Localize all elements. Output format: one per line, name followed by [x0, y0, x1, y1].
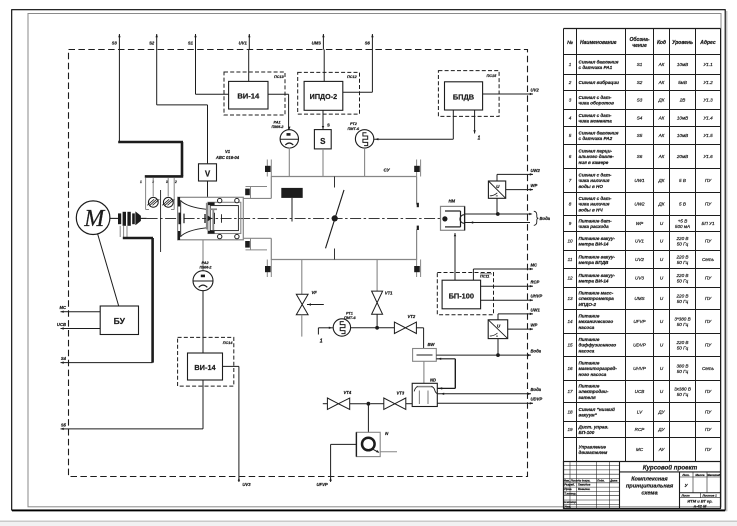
svg-text:ПУ: ПУ	[705, 276, 712, 281]
svg-text:спектрометра: спектрометра	[579, 296, 615, 301]
svg-text:ПС13: ПС13	[274, 75, 285, 79]
svg-text:UCB: UCB	[635, 389, 645, 394]
svg-text:ПУ: ПУ	[705, 410, 712, 415]
svg-text:У1.6: У1.6	[703, 154, 713, 159]
svg-text:380 В: 380 В	[676, 363, 688, 368]
svg-text:UW1: UW1	[634, 178, 645, 183]
svg-text:2: 2	[568, 80, 572, 85]
svg-text:ND: ND	[430, 377, 436, 382]
svg-text:UV2: UV2	[635, 257, 644, 262]
svg-text:ИПДО-2: ИПДО-2	[310, 92, 337, 101]
svg-text:S6: S6	[637, 154, 643, 159]
svg-text:БП У1: БП У1	[701, 221, 715, 226]
svg-text:LV: LV	[637, 410, 643, 415]
svg-text:ДУ: ДУ	[657, 427, 665, 432]
svg-text:UFVP: UFVP	[317, 482, 328, 487]
svg-text:500 мА: 500 мА	[675, 224, 690, 229]
svg-text:S1: S1	[188, 41, 194, 46]
svg-text:50 Гц: 50 Гц	[677, 260, 689, 265]
svg-text:VT3: VT3	[397, 391, 405, 396]
svg-text:UHVP: UHVP	[531, 294, 543, 299]
svg-text:Сигнал вибрации: Сигнал вибрации	[579, 79, 620, 85]
svg-text:АК: АК	[658, 62, 665, 67]
svg-text:UFVP: UFVP	[633, 319, 646, 324]
svg-text:воды в НО: воды в НО	[579, 184, 604, 189]
svg-text:UV1: UV1	[239, 41, 248, 46]
svg-text:чика оборотов: чика оборотов	[579, 100, 615, 106]
svg-text:S2: S2	[637, 80, 643, 85]
svg-text:МС: МС	[636, 447, 644, 452]
svg-text:чика наличия: чика наличия	[579, 202, 610, 207]
svg-text:ПУ: ПУ	[705, 427, 712, 432]
svg-text:ПМТ-6: ПМТ-6	[348, 127, 360, 131]
svg-text:№ докум.: № докум.	[578, 478, 591, 482]
svg-text:Масштаб: Масштаб	[707, 473, 720, 477]
svg-text:вакуум”: вакуум”	[579, 413, 598, 418]
svg-text:ПС14: ПС14	[223, 341, 234, 345]
svg-text:СУ: СУ	[384, 167, 391, 172]
svg-text:Комплексная: Комплексная	[631, 476, 668, 482]
svg-text:UV2: UV2	[531, 87, 540, 92]
svg-text:Питание: Питание	[579, 361, 600, 366]
svg-text:н-42 М: н-42 М	[694, 503, 707, 508]
svg-text:13: 13	[567, 296, 573, 301]
svg-text:АК: АК	[658, 154, 665, 159]
svg-text:чика момента: чика момента	[579, 119, 613, 124]
svg-text:VF: VF	[312, 290, 318, 295]
svg-text:V: V	[205, 169, 211, 178]
svg-text:ПУ: ПУ	[705, 389, 712, 394]
svg-text:насоса: насоса	[579, 325, 595, 330]
svg-text:Питание дат-: Питание дат-	[579, 218, 613, 223]
svg-text:50 Гц: 50 Гц	[677, 299, 689, 304]
svg-text:Вода: Вода	[540, 216, 551, 221]
svg-text:3: 3	[569, 98, 572, 103]
svg-text:ПС12: ПС12	[347, 75, 358, 79]
svg-text:UMS: UMS	[634, 296, 645, 301]
svg-text:S6: S6	[365, 41, 371, 46]
svg-text:RCP: RCP	[635, 427, 646, 432]
svg-text:2В: 2В	[679, 98, 686, 103]
svg-text:ПУ: ПУ	[705, 239, 712, 244]
svg-text:Управление: Управление	[579, 444, 607, 449]
svg-text:20мВ: 20мВ	[676, 154, 688, 159]
svg-text:ПУ: ПУ	[705, 202, 712, 207]
svg-text:Сигнал давления: Сигнал давления	[579, 130, 619, 135]
svg-text:магниторазряд-: магниторазряд-	[579, 366, 618, 371]
svg-text:17: 17	[567, 389, 573, 394]
svg-text:5 В: 5 В	[679, 202, 686, 207]
svg-text:11: 11	[568, 257, 573, 262]
svg-text:50 Гц: 50 Гц	[677, 242, 689, 247]
svg-text:S: S	[320, 137, 326, 146]
svg-text:50 Гц: 50 Гц	[677, 346, 689, 351]
svg-text:Сигнал с дат-: Сигнал с дат-	[579, 173, 612, 178]
svg-text:220 В: 220 В	[675, 236, 688, 241]
svg-text:Адрес: Адрес	[699, 40, 716, 46]
svg-text:ДУ: ДУ	[657, 410, 665, 415]
svg-text:электродви-: электродви-	[579, 389, 609, 394]
svg-text:Сеть: Сеть	[702, 257, 715, 262]
svg-text:ДК: ДК	[658, 98, 665, 103]
svg-text:Вода: Вода	[531, 348, 542, 353]
svg-text:16: 16	[567, 366, 573, 371]
svg-text:ДК: ДК	[658, 178, 665, 183]
svg-text:ДК: ДК	[658, 202, 665, 207]
svg-text:У1.3: У1.3	[703, 98, 713, 103]
svg-text:S3: S3	[637, 98, 643, 103]
svg-text:двигателем: двигателем	[579, 450, 608, 455]
svg-text:АВС 016-04: АВС 016-04	[215, 155, 240, 160]
svg-text:1: 1	[320, 339, 323, 345]
svg-text:У1.4: У1.4	[703, 116, 713, 121]
svg-text:ПУ: ПУ	[705, 343, 712, 348]
svg-text:Питание вакуу-: Питание вакуу-	[579, 273, 616, 278]
svg-text:5 В: 5 В	[679, 178, 686, 183]
svg-text:220 В: 220 В	[675, 340, 688, 345]
svg-text:АУ: АУ	[658, 447, 666, 452]
svg-text:Питание масс-: Питание масс-	[579, 291, 614, 296]
svg-text:Ковален.: Ковален.	[578, 487, 591, 491]
svg-text:метра ВИ-14: метра ВИ-14	[579, 279, 609, 284]
svg-text:БПДВ: БПДВ	[453, 92, 474, 101]
svg-text:ПУ: ПУ	[705, 296, 712, 301]
svg-text:Вода: Вода	[531, 387, 542, 392]
svg-text:3х380 В: 3х380 В	[674, 386, 691, 391]
svg-text:S4: S4	[61, 356, 67, 361]
svg-text:Сигнал с дат-: Сигнал с дат-	[579, 113, 612, 118]
svg-text:ного насоса: ного насоса	[579, 372, 607, 377]
svg-text:Подп.: Подп.	[597, 478, 605, 482]
svg-text:чение: чение	[632, 43, 647, 49]
svg-text:1: 1	[478, 136, 481, 142]
svg-text:Утв.: Утв.	[564, 504, 571, 508]
svg-text:UW2: UW2	[634, 202, 645, 207]
svg-text:ального давле-: ального давле-	[579, 154, 615, 159]
svg-text:ПУ: ПУ	[705, 319, 712, 324]
svg-text:ПУ: ПУ	[705, 178, 712, 183]
svg-text:V1: V1	[225, 149, 231, 154]
svg-text:S4: S4	[637, 116, 643, 121]
svg-text:метра БПДВ: метра БПДВ	[579, 260, 610, 265]
svg-text:Уровень: Уровень	[672, 40, 693, 46]
svg-text:UW1: UW1	[531, 307, 541, 312]
svg-text:RCP: RCP	[531, 280, 540, 285]
svg-text:МС: МС	[531, 262, 538, 267]
svg-text:S2: S2	[149, 41, 155, 46]
svg-text:50 Гц: 50 Гц	[677, 392, 689, 397]
svg-text:S3: S3	[112, 41, 118, 46]
svg-text:Лист: Лист	[681, 494, 691, 498]
svg-text:диффузионного: диффузионного	[579, 342, 617, 348]
svg-text:WP: WP	[636, 221, 644, 226]
svg-text:Сигнал “низкий: Сигнал “низкий	[579, 406, 615, 412]
svg-text:UHVP: UHVP	[633, 366, 647, 371]
svg-text:Сигнал с дат-: Сигнал с дат-	[579, 196, 612, 201]
svg-text:10мВ: 10мВ	[677, 62, 688, 67]
svg-text:+5 В: +5 В	[678, 218, 688, 223]
svg-text:50 Гц: 50 Гц	[677, 322, 689, 327]
svg-text:UCB: UCB	[57, 322, 66, 327]
svg-text:АК: АК	[658, 133, 665, 138]
svg-text:ПУ: ПУ	[705, 447, 712, 452]
svg-text:S5: S5	[61, 422, 67, 427]
svg-text:1: 1	[140, 180, 142, 184]
svg-text:Питание: Питание	[579, 337, 600, 342]
svg-text:50 Гц: 50 Гц	[677, 279, 689, 284]
svg-text:ВИ-14: ВИ-14	[194, 363, 216, 372]
svg-text:10: 10	[567, 239, 573, 244]
svg-text:S: S	[327, 123, 330, 128]
svg-text:гателя: гателя	[579, 395, 596, 400]
svg-text:принципиальная: принципиальная	[626, 483, 674, 489]
svg-text:схема: схема	[641, 490, 657, 496]
svg-text:Сигнал с дат-: Сигнал с дат-	[579, 95, 612, 100]
svg-text:S5: S5	[637, 133, 643, 138]
svg-text:Изм.: Изм.	[564, 478, 570, 482]
svg-text:BW: BW	[428, 342, 436, 347]
svg-text:Лит.: Лит.	[681, 473, 690, 477]
svg-text:VT4: VT4	[344, 390, 352, 395]
svg-text:ПМИ-2: ПМИ-2	[272, 125, 285, 129]
svg-text:220 В: 220 В	[675, 254, 688, 259]
svg-text:Сеть: Сеть	[702, 366, 715, 371]
svg-text:Листов 1: Листов 1	[702, 494, 718, 498]
svg-text:АК: АК	[658, 80, 665, 85]
svg-text:Питание вакуу-: Питание вакуу-	[579, 254, 616, 259]
svg-text:5: 5	[569, 133, 572, 138]
svg-text:РТ2: РТ2	[350, 122, 358, 126]
svg-text:UDVP: UDVP	[531, 397, 543, 402]
svg-text:ИПДО-2: ИПДО-2	[579, 302, 597, 307]
svg-text:Сигнал давления: Сигнал давления	[579, 59, 619, 64]
svg-text:БП-100: БП-100	[579, 430, 595, 435]
svg-text:Курсовой проект: Курсовой проект	[643, 464, 698, 471]
svg-text:220 В: 220 В	[675, 273, 688, 278]
svg-text:насоса: насоса	[579, 348, 595, 353]
svg-text:БУ: БУ	[114, 316, 126, 326]
svg-text:Наименование: Наименование	[580, 40, 617, 46]
svg-text:Масса: Масса	[695, 473, 705, 477]
svg-text:МС: МС	[59, 305, 66, 310]
svg-text:UW2: UW2	[531, 168, 541, 173]
svg-text:6: 6	[569, 154, 572, 159]
svg-text:1: 1	[569, 62, 572, 67]
svg-text:UV3: UV3	[242, 482, 251, 487]
svg-text:19: 19	[567, 427, 573, 432]
svg-text:5мВ: 5мВ	[678, 80, 687, 85]
svg-text:Питание: Питание	[579, 314, 600, 319]
svg-text:Сигнал парци-: Сигнал парци-	[579, 149, 613, 154]
svg-text:механического: механического	[579, 319, 614, 324]
svg-text:У1.5: У1.5	[703, 133, 713, 138]
svg-text:метра ВИ-14: метра ВИ-14	[579, 242, 609, 247]
svg-text:ПМИ-2: ПМИ-2	[200, 266, 213, 270]
svg-text:НМ: НМ	[449, 199, 456, 204]
svg-text:50 Гц: 50 Гц	[677, 369, 689, 374]
svg-text:У1.1: У1.1	[703, 62, 713, 67]
svg-text:9: 9	[569, 221, 572, 226]
svg-text:UMS: UMS	[312, 41, 322, 46]
svg-text:UV1: UV1	[635, 239, 644, 244]
svg-text:14: 14	[567, 319, 573, 324]
svg-text:чика наличия: чика наличия	[579, 178, 610, 183]
svg-text:VT1: VT1	[385, 291, 393, 296]
svg-text:UV3: UV3	[635, 276, 644, 281]
svg-text:10мВ: 10мВ	[677, 133, 688, 138]
svg-text:№: №	[567, 40, 573, 46]
svg-text:с датчика РА1: с датчика РА1	[579, 65, 613, 70]
svg-text:БП-100: БП-100	[449, 291, 474, 300]
svg-text:ния в камере: ния в камере	[579, 160, 609, 165]
svg-text:Питание вакуу-: Питание вакуу-	[579, 236, 616, 241]
svg-text:8: 8	[569, 202, 572, 207]
svg-text:ПС15: ПС15	[487, 74, 498, 78]
svg-text:10мВ: 10мВ	[677, 116, 688, 121]
svg-text:WP: WP	[531, 183, 538, 188]
svg-text:15: 15	[567, 343, 573, 348]
svg-text:чика расхода: чика расхода	[579, 224, 610, 229]
svg-text:Код: Код	[657, 40, 666, 46]
svg-text:с датчика РА2: с датчика РА2	[579, 136, 613, 141]
svg-text:220 В: 220 В	[675, 293, 688, 298]
svg-text:18: 18	[567, 410, 573, 415]
svg-text:WP: WP	[531, 323, 538, 328]
svg-text:ВИ-14: ВИ-14	[237, 92, 260, 101]
svg-text:РТ1: РТ1	[346, 312, 353, 316]
svg-text:4: 4	[569, 116, 572, 121]
svg-text:M: M	[83, 206, 106, 232]
svg-text:7: 7	[569, 178, 572, 183]
svg-text:У1.2: У1.2	[703, 80, 713, 85]
svg-text:3*380 В: 3*380 В	[674, 316, 690, 321]
svg-text:Дист. управ.: Дист. управ.	[578, 424, 609, 429]
svg-text:S1: S1	[637, 62, 643, 67]
svg-text:воды в НЧ: воды в НЧ	[579, 207, 604, 212]
svg-text:Т.контр.: Т.контр.	[564, 491, 576, 495]
svg-text:АК: АК	[658, 116, 665, 121]
svg-text:VT2: VT2	[408, 314, 416, 319]
svg-text:Дата: Дата	[609, 478, 618, 482]
svg-text:РА2: РА2	[202, 261, 210, 265]
svg-text:Питание: Питание	[579, 384, 600, 389]
svg-text:РА1: РА1	[274, 121, 281, 125]
svg-text:12: 12	[567, 276, 573, 281]
svg-text:UDVP: UDVP	[633, 343, 647, 348]
svg-text:Обозна-: Обозна-	[629, 36, 649, 43]
svg-text:ПС11: ПС11	[480, 275, 489, 279]
